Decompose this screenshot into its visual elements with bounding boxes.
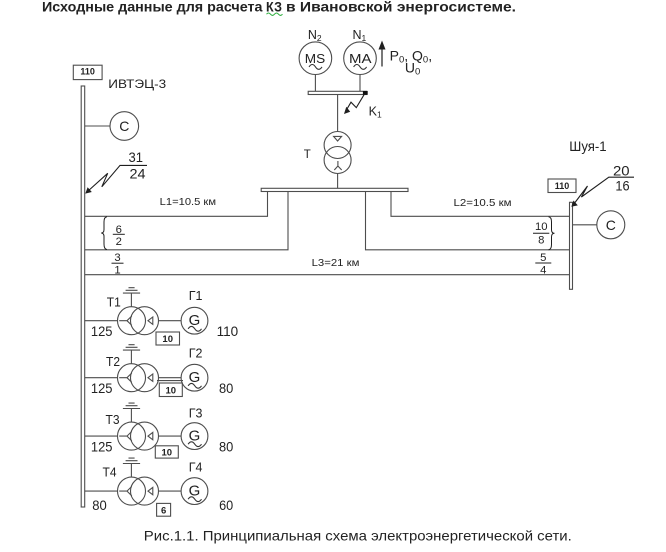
svg-text:110: 110 bbox=[80, 67, 95, 77]
svg-text:110: 110 bbox=[555, 181, 570, 191]
svg-text:Г3: Г3 bbox=[189, 407, 203, 421]
svg-text:1: 1 bbox=[114, 264, 120, 276]
svg-text:Исходные данные для расчета: Исходные данные для расчета bbox=[42, 0, 263, 15]
svg-text:Г1: Г1 bbox=[189, 289, 203, 303]
svg-text:MA: MA bbox=[349, 51, 372, 66]
svg-text:Т2: Т2 bbox=[106, 355, 120, 369]
svg-text:125: 125 bbox=[91, 323, 113, 339]
svg-text:16: 16 bbox=[615, 178, 629, 193]
svg-text:T: T bbox=[304, 149, 311, 161]
svg-text:80: 80 bbox=[219, 380, 233, 396]
svg-text:8: 8 bbox=[538, 235, 544, 247]
svg-text:10: 10 bbox=[162, 447, 173, 458]
svg-text:Т1: Т1 bbox=[107, 296, 121, 310]
svg-text:80: 80 bbox=[92, 497, 107, 513]
svg-text:Г4: Г4 bbox=[189, 461, 203, 475]
svg-text:3: 3 bbox=[114, 252, 120, 264]
svg-text:C: C bbox=[606, 217, 616, 233]
svg-text:MS: MS bbox=[305, 51, 326, 66]
svg-text:2: 2 bbox=[116, 236, 122, 248]
svg-text:L2=10.5 км: L2=10.5 км bbox=[454, 198, 512, 209]
svg-text:КЗ: КЗ bbox=[266, 0, 282, 15]
svg-text:C: C bbox=[119, 118, 129, 134]
svg-text:в Ивановской энергосистеме.: в Ивановской энергосистеме. bbox=[286, 0, 516, 15]
svg-text:5: 5 bbox=[540, 252, 546, 264]
svg-text:31: 31 bbox=[129, 149, 144, 165]
svg-text:10: 10 bbox=[166, 385, 177, 396]
svg-text:24: 24 bbox=[130, 166, 146, 182]
svg-text:4: 4 bbox=[540, 264, 546, 276]
svg-text:125: 125 bbox=[91, 380, 113, 396]
svg-text:L1=10.5 км: L1=10.5 км bbox=[160, 197, 216, 208]
svg-text:Т3: Т3 bbox=[106, 413, 120, 427]
svg-text:L3=21 км: L3=21 км bbox=[312, 258, 360, 269]
svg-text:10: 10 bbox=[535, 221, 548, 233]
svg-text:80: 80 bbox=[219, 439, 233, 455]
svg-text:Рис.1.1. Принципиальная схема: Рис.1.1. Принципиальная схема электроэне… bbox=[144, 528, 572, 544]
svg-text:110: 110 bbox=[217, 323, 239, 339]
svg-text:ИВТЭЦ-3: ИВТЭЦ-3 bbox=[108, 77, 166, 91]
svg-text:125: 125 bbox=[91, 439, 113, 455]
svg-text:6: 6 bbox=[161, 505, 166, 516]
svg-text:Шуя-1: Шуя-1 bbox=[569, 139, 606, 154]
svg-text:Г2: Г2 bbox=[189, 347, 203, 361]
svg-text:20: 20 bbox=[613, 164, 630, 179]
svg-text:10: 10 bbox=[162, 334, 173, 345]
svg-text:Т4: Т4 bbox=[103, 465, 117, 479]
svg-text:60: 60 bbox=[219, 497, 233, 513]
